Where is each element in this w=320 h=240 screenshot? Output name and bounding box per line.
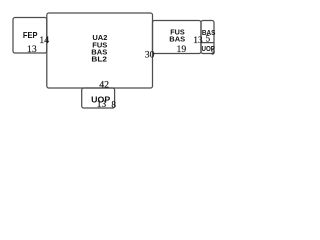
svg-text:9: 9 bbox=[211, 49, 215, 57]
svg-text:FEP: FEP bbox=[23, 30, 38, 40]
section BAS/UOP small right box bbox=[201, 21, 214, 54]
svg-text:5: 5 bbox=[206, 34, 211, 44]
svg-text:14: 14 bbox=[39, 35, 49, 46]
UOP bottom box bbox=[82, 88, 115, 108]
svg-text:BAS: BAS bbox=[169, 35, 185, 44]
svg-text:13: 13 bbox=[97, 100, 107, 110]
svg-text:8: 8 bbox=[111, 100, 116, 110]
svg-text:19: 19 bbox=[177, 44, 187, 55]
svg-text:BL2: BL2 bbox=[91, 54, 107, 63]
svg-text:42: 42 bbox=[99, 79, 109, 90]
FEP box bbox=[13, 18, 47, 54]
svg-text:13: 13 bbox=[27, 44, 37, 55]
section FUS/BAS right extension bbox=[153, 21, 202, 54]
divider BAS/UOP bbox=[201, 42, 214, 44]
svg-text:30: 30 bbox=[145, 50, 155, 61]
main box UA2/FUS/BAS/BL2 bbox=[47, 13, 153, 88]
